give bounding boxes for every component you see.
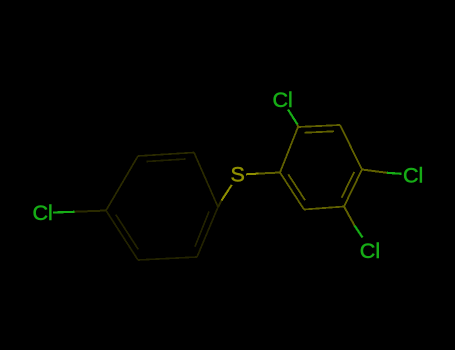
left ring edge C'-D' [194, 153, 218, 208]
left ring edge A'-B' [106, 156, 138, 211]
left ring inner double bond B'-C' [146, 159, 185, 162]
right ring edge A-B [280, 127, 298, 173]
bond S to D' [222, 185, 232, 201]
bond left Cl to A' green half [53, 211, 75, 214]
right ring edge D-E [344, 170, 362, 207]
svg-text:Cl: Cl [273, 88, 293, 112]
right ring edge F-A [280, 173, 304, 210]
bond bottom Cl to E green half [355, 226, 363, 238]
right ring edge B-C [298, 125, 340, 127]
bond right Cl to D dark half [362, 170, 387, 173]
left ring edge E'-F' [138, 257, 197, 260]
svg-text:Cl: Cl [403, 163, 423, 187]
right ring edge C-D [340, 125, 362, 170]
bond right Cl to D green half [387, 173, 402, 174]
right ring inner double bond B-C [305, 131, 334, 132]
bond bottom Cl to E dark half [344, 207, 355, 226]
bond top Cl to B green half [288, 110, 298, 125]
left ring edge D'-E' [197, 207, 218, 257]
right ring inner double bond F-A [288, 174, 305, 200]
left ring edge B'-C' [138, 153, 194, 157]
svg-text:S: S [231, 163, 245, 187]
svg-text:Cl: Cl [360, 239, 380, 263]
svg-text:Cl: Cl [33, 201, 53, 225]
bond S to D' dark tail [218, 201, 222, 208]
left ring edge F'-A' [106, 211, 138, 261]
right ring inner double bond D-E [342, 172, 355, 198]
left ring inner double bond F'-A' [116, 215, 138, 250]
bond left Cl to A' dark half [75, 211, 107, 212]
bond S to A bright half [246, 173, 259, 176]
bond S to A dark half [259, 173, 281, 174]
right ring edge E-F [304, 207, 344, 210]
left ring inner double bond D'-E' [195, 212, 209, 247]
bond top Cl to B dark half [297, 125, 300, 128]
